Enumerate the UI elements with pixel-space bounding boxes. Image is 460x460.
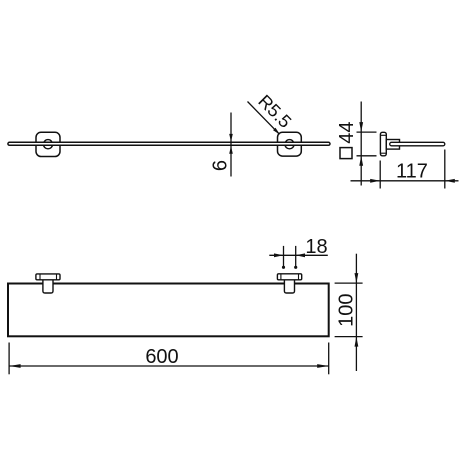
svg-text:117: 117: [396, 160, 428, 182]
svg-text:600: 600: [145, 346, 178, 368]
svg-text:18: 18: [305, 236, 327, 258]
svg-text:44: 44: [336, 121, 358, 143]
svg-text:100: 100: [335, 294, 357, 327]
svg-text:6: 6: [210, 160, 232, 171]
